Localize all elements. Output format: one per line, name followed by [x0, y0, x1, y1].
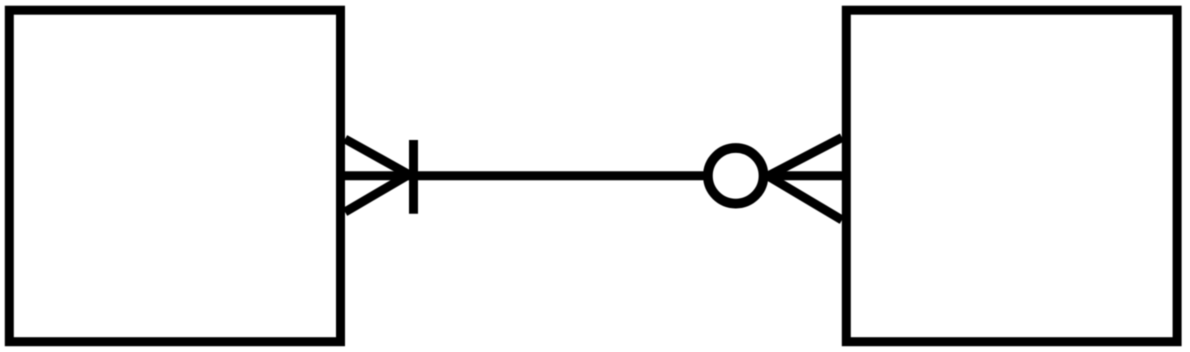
entity box right — [846, 10, 1177, 342]
cardinality bar (one) — [409, 140, 418, 214]
wire right middle segment — [767, 171, 843, 180]
crow's foot right top prong — [768, 138, 842, 177]
crow's foot left bottom prong — [345, 176, 407, 212]
wire relationship line — [343, 171, 705, 180]
crow's foot left top prong — [345, 139, 412, 176]
entity box left — [9, 10, 340, 342]
crow's foot right bottom prong — [768, 176, 842, 220]
optionality circle (zero) — [708, 148, 764, 204]
